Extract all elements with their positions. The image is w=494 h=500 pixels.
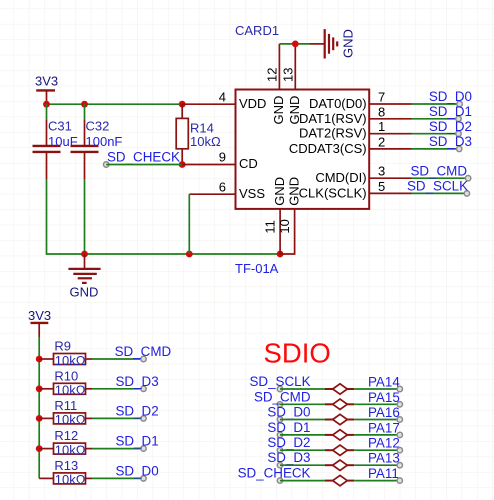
svg-text:6: 6 [219,179,226,194]
resistor R9 [36,339,172,368]
svg-text:SD_D2: SD_D2 [267,435,310,450]
wire C31 top [46,104,48,119]
IC CARD1 body [236,90,370,209]
node port SD_D0 [141,476,146,481]
svg-text:SD_D0: SD_D0 [429,89,472,104]
svg-text:PA12: PA12 [368,436,400,451]
node port SD_CHECK [277,478,282,483]
net tie row SD_D3/PA13 [267,450,402,470]
svg-text:DAT2(RSV): DAT2(RSV) [299,126,367,141]
svg-text:10kΩ: 10kΩ [55,383,86,398]
node port PA16 [397,417,402,422]
pin 6 VSS wire [189,193,235,195]
svg-text:8: 8 [378,104,385,119]
node port SD_D1 [141,446,146,451]
svg-text:PA13: PA13 [368,451,400,466]
svg-text:10kΩ: 10kΩ [55,442,86,457]
svg-text:VSS: VSS [239,186,265,201]
svg-text:SD_D2: SD_D2 [116,403,159,418]
pin 4 VDD wire [182,103,235,105]
pin 9 CD wire [182,164,235,166]
node junction rail/R14 [179,101,186,108]
node port SD_D1 [456,116,461,121]
svg-text:4: 4 [219,89,226,104]
wire SD_D2 left [280,449,325,451]
node port PA12 [397,448,402,453]
svg-text:10kΩ: 10kΩ [55,472,86,487]
svg-text:5: 5 [378,179,385,194]
wire C31 bottom [47,179,281,254]
svg-text:100nF: 100nF [86,134,123,149]
wire 3V3 rail [47,103,183,105]
svg-text:CD: CD [239,156,258,171]
svg-text:R13: R13 [54,458,78,473]
net tie row SD_SCLK/PA14 [249,374,402,394]
svg-text:SD_D3: SD_D3 [116,374,159,389]
svg-text:C31: C31 [48,119,72,134]
net label SD_CHECK [104,150,183,168]
netflag tie diamond [325,388,333,390]
svg-text:PA17: PA17 [368,420,400,435]
resistor R10 [36,368,159,397]
wire PA11 right [354,480,400,482]
wire SD_SCLK [412,192,467,194]
svg-text:TF-01A: TF-01A [235,261,279,276]
wire R11 to SD_D2 [92,417,144,419]
node port PA15 [397,402,402,407]
net tie row SD_CHECK/PA11 [238,466,403,486]
wire SD_CMD left [280,403,325,405]
pin 10 stub [280,209,295,254]
svg-text:2: 2 [378,134,385,149]
node port SD_SCLK [277,386,282,391]
resistor R13 [39,458,158,487]
wire SD_D3 [412,148,460,150]
pin 5 stub [369,192,411,194]
pin 2 stub [369,148,411,150]
svg-text:10kΩ: 10kΩ [55,353,86,368]
netflag tie diamond [325,464,333,466]
wire PA13 right [354,464,400,466]
svg-text:PA16: PA16 [368,405,400,420]
node junction rail/C32 [81,101,88,108]
svg-text:SD_D0: SD_D0 [116,463,159,478]
svg-text:10kΩ: 10kΩ [55,412,86,427]
svg-text:DAT1(RSV): DAT1(RSV) [299,111,367,126]
svg-text:SD_D2: SD_D2 [429,119,472,134]
svg-text:3: 3 [378,164,385,179]
netflag tie diamond [325,419,333,421]
svg-text:R9: R9 [54,339,71,354]
svg-text:GND: GND [70,284,99,299]
ground flag GND top (rotated) [310,29,356,58]
node port SD_D2 [456,131,461,136]
node port PA14 [397,386,402,391]
svg-text:SD_D3: SD_D3 [267,450,310,465]
wire R9 to SD_CMD [92,358,144,360]
svg-text:VDD: VDD [239,96,266,111]
wire PA16 right [354,419,400,421]
node junction bottom/pin11 [277,251,284,258]
wire SD_CHECK to CD [106,164,182,166]
wire R12 to SD_D1 [92,448,144,450]
wire SD_D2 [412,133,459,135]
pin 3 stub [369,177,411,179]
node port SD_D0 [277,417,282,422]
node port SD_CMD [277,402,282,407]
resistor R14 [176,104,221,164]
svg-text:SDIO: SDIO [264,337,331,368]
svg-text:SD_D0: SD_D0 [267,405,310,420]
pin 12 stub [278,44,280,90]
svg-text:1: 1 [378,119,385,134]
power flag 3V3 [35,74,58,105]
capacitor C32 [71,119,123,180]
wire C32 top [84,104,86,119]
svg-text:R11: R11 [54,398,77,413]
wire VSS to ground rail [188,194,190,254]
svg-text:3V3: 3V3 [35,74,58,89]
svg-text:SD_CHECK: SD_CHECK [238,466,311,481]
pin 1 stub [369,133,411,135]
svg-text:CLK(SCLK): CLK(SCLK) [299,185,367,200]
wire SD_D3 left [280,464,325,466]
wire R13 to SD_D0 [92,477,144,479]
wire PA15 right [354,403,400,405]
pin 13 stub [294,44,296,90]
svg-text:SD_CHECK: SD_CHECK [107,150,180,165]
pin 8 stub [369,118,411,120]
netflag tie diamond [325,480,333,482]
node port SD_D2 [141,416,146,421]
node port PA11 [397,478,402,483]
ground GND below capacitors [68,254,100,299]
wire PA14 right [354,388,400,390]
wire PA17 right [354,434,400,436]
svg-text:SD_D1: SD_D1 [116,434,159,449]
svg-text:CDDAT3(CS): CDDAT3(CS) [289,141,367,156]
node port PA17 [397,432,402,437]
svg-text:12: 12 [264,68,279,82]
node port SD_D1 [277,432,282,437]
node port SD_CMD [465,176,470,181]
svg-text:SD_SCLK: SD_SCLK [407,179,468,194]
svg-text:13: 13 [280,68,295,82]
svg-text:9: 9 [219,150,226,165]
wire SD_D1 left [280,434,325,436]
resistor R11 [36,398,159,427]
pin 11 stub [279,209,281,254]
svg-text:SD_CMD: SD_CMD [115,344,172,359]
capacitor C31 [33,119,78,180]
node junction bottom/C32 [81,251,88,258]
wire SD_CMD [412,177,469,179]
node port SD_D3 [457,146,462,151]
pin 7 stub [369,103,411,105]
node junction rail/C31 [43,101,50,108]
svg-text:SD_D1: SD_D1 [267,420,310,435]
svg-text:SD_CMD: SD_CMD [254,389,311,404]
node junction pin13/top wire [292,41,299,48]
svg-text:PA11: PA11 [368,466,399,481]
wire SD_D0 [412,103,460,105]
svg-text:GND: GND [340,29,355,58]
svg-text:CMD(DI): CMD(DI) [315,170,366,185]
node port SD_D2 [277,448,282,453]
svg-text:PA15: PA15 [368,390,400,405]
wire SD_D1 [412,118,459,120]
svg-text:PA14: PA14 [368,375,400,390]
wire SD_CHECK left [280,480,325,482]
svg-text:SD_CMD: SD_CMD [410,163,467,178]
netflag tie diamond [325,449,333,451]
wire SD_SCLK left [280,388,325,390]
svg-text:7: 7 [378,90,385,105]
svg-text:R12: R12 [54,428,78,443]
svg-text:SD_SCLK: SD_SCLK [249,374,310,389]
netflag tie diamond [325,403,333,405]
svg-text:3V3: 3V3 [28,308,51,323]
netflag tie diamond [325,434,333,436]
net tie row SD_D2/PA12 [267,435,402,455]
wire PA12 right [354,449,400,451]
svg-text:GND: GND [272,177,287,206]
net tie row SD_CMD/PA15 [254,389,403,409]
wire C32 bottom [84,179,86,254]
node port SD_SCLK [464,191,469,196]
wire top GND [279,43,309,45]
svg-text:SD_D3: SD_D3 [429,134,472,149]
svg-text:CARD1: CARD1 [235,23,279,38]
wire SD_D0 left [280,419,325,421]
svg-text:GND: GND [271,96,286,125]
svg-text:11: 11 [262,220,277,234]
node port SD_CMD [141,356,146,361]
node port SD_D3 [277,463,282,468]
power flag 3V3 (ladder) [28,308,51,337]
svg-text:DAT0(D0): DAT0(D0) [309,96,367,111]
node junction R14/CD [179,161,186,168]
node port SD_D0 [457,101,462,106]
resistor R12 [36,428,159,457]
svg-text:10kΩ: 10kΩ [190,134,221,149]
node port SD_D3 [141,386,146,391]
svg-text:C32: C32 [86,119,110,134]
net tie row SD_D1/PA17 [267,420,402,440]
svg-text:R10: R10 [54,368,78,383]
svg-text:10: 10 [277,219,292,233]
svg-text:SD_D1: SD_D1 [429,104,472,119]
wire R10 to SD_D3 [92,388,144,390]
net tie row SD_D0/PA16 [267,405,402,425]
node junction bottom/VSS [186,251,193,258]
node port PA13 [397,463,402,468]
wire ladder rail [38,337,40,478]
